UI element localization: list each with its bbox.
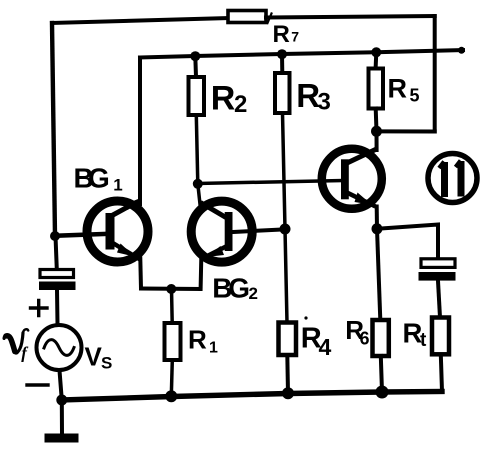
svg-text:7: 7 bbox=[291, 29, 299, 45]
svg-text:R: R bbox=[211, 80, 236, 118]
svg-text:G: G bbox=[228, 273, 250, 304]
svg-text:V: V bbox=[85, 341, 103, 371]
svg-text:R: R bbox=[188, 325, 207, 355]
svg-text:R: R bbox=[388, 74, 408, 104]
svg-text:2: 2 bbox=[234, 91, 247, 118]
svg-text:1: 1 bbox=[113, 176, 122, 195]
svg-text:t: t bbox=[420, 330, 427, 351]
svg-text:5: 5 bbox=[410, 86, 420, 106]
svg-text:S: S bbox=[101, 354, 112, 373]
svg-text:2: 2 bbox=[249, 284, 258, 303]
svg-text:6: 6 bbox=[360, 329, 370, 349]
svg-text:G: G bbox=[88, 163, 110, 194]
svg-text:4: 4 bbox=[319, 334, 332, 360]
svg-text:R: R bbox=[273, 21, 290, 48]
svg-text:1: 1 bbox=[209, 340, 218, 357]
svg-text:3: 3 bbox=[318, 89, 331, 116]
